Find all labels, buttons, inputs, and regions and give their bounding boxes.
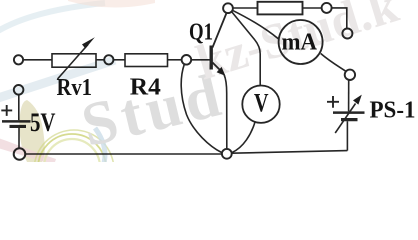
emitter tail wire to bottom node — [224, 75, 227, 149]
resistor R5 (top, unlabeled) — [258, 2, 303, 15]
wire R4 to N2 — [168, 59, 182, 61]
battery 5V top lead — [18, 95, 20, 121]
wire mA to terminal C — [321, 54, 346, 72]
Q1 emitter arrowhead — [217, 67, 226, 76]
wire N2 to base — [191, 59, 210, 61]
swirl arc blue right — [95, 128, 105, 163]
battery 5V bottom lead — [18, 128, 20, 148]
wire PS-1 to bottom rail — [346, 121, 348, 150]
PS-1 long plate — [333, 111, 365, 114]
bottom node terminal — [222, 149, 232, 159]
wire C down to PS-1 — [348, 80, 350, 111]
Q1 collector lead — [213, 14, 227, 48]
battery 5V short plate — [10, 125, 27, 128]
transistor Q1 base bar — [209, 46, 212, 70]
bottom rail left — [26, 153, 222, 155]
resistor R4 — [125, 54, 168, 67]
terminal B — [342, 29, 352, 39]
terminal C — [345, 70, 355, 80]
terminal T3 bottom-left — [14, 148, 26, 160]
blue arc top-left — [0, 3, 105, 31]
PS-1 short plate — [341, 118, 358, 121]
terminal T1 top-left — [14, 55, 23, 64]
junction terminal N1 — [104, 55, 113, 64]
mA meter body — [279, 20, 323, 64]
wire Rv1 to N1 — [96, 59, 104, 61]
battery 5V top terminal T2 — [14, 85, 24, 95]
wire A corner to terminal B — [332, 8, 347, 29]
wire T1 to Rv1 — [23, 59, 52, 61]
svg-text:V: V — [254, 88, 269, 117]
swirl tan blob — [19, 100, 44, 162]
V meter body — [242, 86, 279, 123]
PS-1 arrow shaft — [335, 104, 355, 134]
mA meter wire from top node — [232, 10, 278, 39]
V meter wire from top node — [232, 12, 261, 86]
wire R5 to terminal A — [303, 7, 322, 9]
swirl arcs green — [44, 139, 100, 195]
wire V down to bottom node — [232, 121, 255, 152]
svg-text:PS-1: PS-1 — [370, 98, 416, 124]
Rv1 arrow shaft — [58, 45, 89, 80]
resistor Rv1 — [52, 54, 96, 67]
bottom rail right — [232, 151, 348, 154]
PS-1 plus sign — [327, 96, 339, 108]
battery 5V long plate — [2, 120, 31, 123]
blue diagonal band left — [0, 60, 115, 98]
top node terminal — [223, 3, 233, 13]
svg-text:kz-Stud.k: kz-Stud.k — [190, 0, 405, 91]
Rv1 arrowhead — [82, 37, 95, 48]
swirl pink band bottom-left — [0, 138, 56, 165]
top rail node to R5 — [233, 7, 258, 9]
terminal A — [322, 3, 332, 13]
peach tint top — [68, 0, 155, 8]
base node terminal N2 — [182, 55, 192, 65]
curve from base node down to bottom node — [181, 64, 222, 152]
battery 5V plus sign — [1, 105, 12, 116]
Q1 emitter lead — [213, 63, 222, 72]
wire N1 to R4 — [113, 59, 125, 61]
PS-1 arrowhead — [353, 95, 362, 105]
